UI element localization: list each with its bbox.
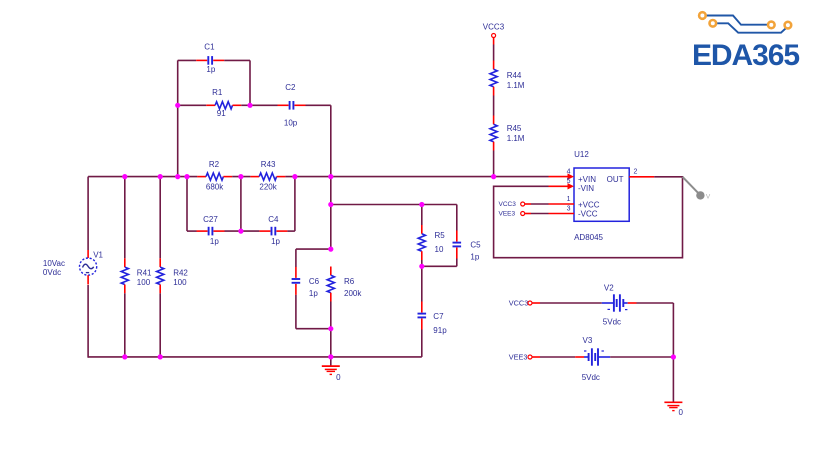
wire C27-C4 middle vertical [240,177,242,232]
svg-text:91: 91 [217,109,226,118]
resistor R1 [178,88,250,118]
svg-text:V2: V2 [604,283,614,292]
svg-text:1p: 1p [210,237,219,246]
svg-text:0: 0 [336,373,341,382]
svg-text:C27: C27 [203,215,218,224]
wire R45 to input row [493,151,495,177]
wire battery right vertical [672,303,674,357]
pin 4 +VIN [549,168,575,180]
svg-text:V1: V1 [93,251,103,260]
resistor R45 [490,116,525,151]
svg-text:200k: 200k [344,289,362,298]
capacitor C6 [292,249,320,329]
svg-text:100: 100 [137,278,151,287]
wire C27 loop left vertical [186,177,188,232]
wire left vertical to V1 top [87,177,89,250]
pin 2 OUT [629,169,654,177]
svg-text:-VCC: -VCC [578,210,598,219]
pin 1 +VCC [549,196,575,204]
svg-text:1: 1 [567,196,571,203]
wire C4 right vertical [294,177,296,232]
svg-text:1p: 1p [271,237,280,246]
svg-text:1p: 1p [206,65,215,74]
power symbol VEE3 at V3 [509,353,575,362]
wire R5/C5 top rail [331,204,457,206]
wire main mid vertical input row to C6 loop top [330,177,332,250]
svg-text:100: 100 [173,278,187,287]
power symbol VEE3 at op-amp [499,211,549,218]
power symbol VCC3 top [483,23,505,61]
svg-text:VEE3: VEE3 [499,211,516,218]
svg-text:C2: C2 [285,83,296,92]
EDA365 logo [692,12,800,72]
svg-text:R43: R43 [261,160,276,169]
wire between R44 and R45 [493,96,495,116]
wire bottom ground rail [88,356,422,358]
capacitor C27 [187,215,241,246]
svg-text:R44: R44 [507,71,522,80]
svg-text:5: 5 [567,178,571,185]
resistor R42 [157,177,189,357]
svg-text:10: 10 [435,245,444,254]
svg-text:+VIN: +VIN [578,175,596,184]
svg-text:10p: 10p [284,118,298,127]
wire C6 loop top rail [296,248,331,250]
resistor R41 [121,177,152,357]
battery V2 [602,283,674,326]
svg-text:R6: R6 [344,277,355,286]
svg-text:V: V [706,193,711,200]
svg-text:1.1M: 1.1M [507,81,525,90]
svg-text:1p: 1p [470,253,479,262]
svg-text:1.1M: 1.1M [507,134,525,143]
svg-text:VCC3: VCC3 [483,23,505,32]
svg-text:EDA365: EDA365 [692,39,800,72]
svg-text:AD8045: AD8045 [574,233,603,242]
svg-text:R1: R1 [212,88,223,97]
svg-text:U12: U12 [574,150,589,159]
svg-text:3: 3 [567,205,571,212]
capacitor C1 [178,43,250,74]
svg-text:R41: R41 [137,268,152,277]
wire input row right of R43 [285,176,548,178]
wire V1 bottom to ground rail [87,285,89,358]
pin 5 -VIN [549,178,575,189]
svg-text:C7: C7 [433,312,444,321]
pin 3 -VCC [549,205,575,213]
svg-text:0: 0 [679,408,684,417]
svg-text:5Vdc: 5Vdc [582,373,600,382]
svg-text:OUT: OUT [607,175,624,184]
svg-text:91p: 91p [433,326,447,335]
svg-text:R42: R42 [173,268,188,277]
wire middle vertical C2 down to input row [330,105,332,176]
svg-text:C1: C1 [204,43,215,52]
svg-text:VEE3: VEE3 [509,353,528,362]
svg-text:5Vdc: 5Vdc [603,317,621,326]
svg-text:2: 2 [634,169,638,176]
wire R6 bottom to ground rail [330,302,332,357]
capacitor C2 [250,83,331,127]
wire -VIN feedback loop [494,177,683,258]
svg-text:0Vdc: 0Vdc [43,268,61,277]
svg-text:R5: R5 [435,231,446,240]
capacitor C5 [453,205,482,267]
capacitor C4 [241,215,295,246]
battery V3 [575,336,673,382]
svg-text:10Vac: 10Vac [43,259,65,268]
wire input row left segment [88,176,197,178]
voltage source V1 [43,250,104,285]
resistor R43 [250,160,285,191]
ground 0 right [664,357,683,417]
resistor R5 [418,205,445,267]
svg-text:VCC3: VCC3 [509,299,528,308]
wire between R2 and R43 [232,176,250,178]
resistor R2 [197,160,232,191]
resistor R6 [327,267,362,302]
wire C1 feedback loop left vertical [177,60,179,176]
node junction dots [122,103,676,360]
svg-text:4: 4 [567,168,571,175]
power symbol VCC3 at V2 [509,299,602,308]
capacitor C7 [418,266,448,357]
svg-text:VCC3: VCC3 [499,201,517,208]
wire C1 feedback loop right vertical [249,60,251,105]
wire C6 loop bottom rail [296,328,331,330]
op-amp U12 [574,150,629,242]
ground 0 left [322,357,341,382]
svg-text:C6: C6 [309,277,320,286]
svg-text:1p: 1p [309,289,318,298]
svg-text:+VCC: +VCC [578,200,600,209]
svg-text:-VIN: -VIN [578,184,594,193]
probe V marker [683,177,711,201]
svg-text:C4: C4 [268,215,279,224]
svg-text:V3: V3 [583,336,593,345]
wire R5/C5 bottom rail [422,265,457,267]
resistor R44 [490,61,525,96]
svg-text:C5: C5 [470,241,481,250]
svg-text:R2: R2 [209,160,220,169]
svg-text:220k: 220k [259,182,277,191]
svg-text:680k: 680k [206,182,224,191]
svg-text:R45: R45 [507,124,522,133]
power symbol VCC3 at op-amp [499,201,549,208]
